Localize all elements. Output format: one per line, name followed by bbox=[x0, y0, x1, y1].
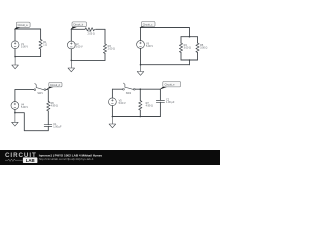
wire B bottom bbox=[71, 59, 105, 61]
svg-text:1.00 µF: 1.00 µF bbox=[166, 101, 175, 104]
node C2 junction bbox=[189, 59, 191, 61]
ground D bbox=[12, 113, 19, 126]
callout box Circuit_a bbox=[14, 22, 30, 30]
wire C parallel bottom bar bbox=[181, 60, 198, 65]
node E2 junction bbox=[140, 116, 142, 118]
wire C parallel left leads bbox=[180, 37, 182, 60]
ground E bbox=[109, 117, 116, 128]
logo resistor squiggle bbox=[5, 159, 23, 161]
wire D mid right bbox=[47, 111, 49, 125]
wire C parallel top bar bbox=[181, 36, 198, 38]
wire A bottom bbox=[15, 56, 41, 58]
wire A top bbox=[15, 28, 41, 30]
voltage source V5 bbox=[109, 98, 117, 106]
footer bar bbox=[0, 150, 220, 165]
node C1 junction bbox=[189, 36, 191, 38]
svg-text:5.00 V: 5.00 V bbox=[146, 45, 153, 48]
wire A left leads bbox=[14, 29, 16, 57]
wire C bottom bbox=[141, 64, 190, 66]
wire C top bbox=[141, 28, 190, 37]
callout box Circuit_e bbox=[159, 81, 180, 89]
svg-text:Circuit_d: Circuit_d bbox=[50, 84, 60, 87]
capacitor C2 bbox=[156, 101, 164, 103]
capacitor C1 bbox=[44, 125, 52, 127]
svg-text:SW1: SW1 bbox=[37, 92, 43, 95]
wire C parallel right leads bbox=[197, 37, 199, 60]
svg-text:3.00 Ω: 3.00 Ω bbox=[200, 47, 207, 50]
svg-text:Circuit_c: Circuit_c bbox=[143, 23, 153, 26]
ground A bbox=[12, 57, 19, 69]
wire B top bbox=[71, 28, 105, 30]
svg-text:1.00 µF: 1.00 µF bbox=[53, 126, 62, 129]
callout box Circuit_d bbox=[46, 82, 62, 89]
callout box Circuit_c bbox=[139, 22, 155, 28]
wire B left leads bbox=[70, 29, 72, 60]
node D1 junction bbox=[14, 112, 16, 114]
wire E R7 branch top bbox=[139, 89, 141, 100]
svg-text:1 Ω: 1 Ω bbox=[43, 44, 47, 47]
svg-text:4.99 Ω: 4.99 Ω bbox=[146, 105, 153, 108]
voltage source V2 bbox=[67, 41, 75, 49]
switch SW2 bbox=[123, 88, 125, 90]
resistor R7 bbox=[139, 101, 142, 110]
svg-text:5.00 V: 5.00 V bbox=[119, 102, 126, 105]
resistor R1 bbox=[39, 40, 42, 49]
node A1 junction bbox=[14, 56, 16, 58]
wire E cap bottom bbox=[159, 102, 161, 116]
logo LAB box bbox=[23, 157, 38, 163]
voltage source V4 bbox=[11, 102, 19, 110]
wire A right bbox=[40, 29, 42, 57]
node C3 junction bbox=[140, 64, 142, 66]
switch SW1 bbox=[34, 89, 36, 91]
svg-text:Circuit_b: Circuit_b bbox=[73, 24, 83, 27]
wire E left leads bbox=[111, 89, 113, 116]
svg-text:2.00 Ω: 2.00 Ω bbox=[88, 33, 95, 36]
node E1 junction bbox=[140, 88, 142, 90]
svg-text:5.00 V: 5.00 V bbox=[76, 46, 83, 49]
ground B bbox=[68, 60, 75, 71]
node E3 junction bbox=[112, 116, 114, 118]
wire E top left bbox=[112, 88, 122, 90]
wire E R7 branch bottom bbox=[139, 110, 141, 116]
wire D left leads bbox=[14, 90, 16, 113]
wire D top left bbox=[15, 89, 34, 91]
svg-text:3.00 Ω: 3.00 Ω bbox=[184, 47, 191, 50]
node B1 junction bbox=[71, 60, 73, 62]
resistor R2 horizontal bbox=[85, 28, 94, 31]
wire B right bbox=[104, 29, 106, 60]
voltage source V3 bbox=[137, 41, 145, 49]
svg-text:http://circuitlab.com/c/fpu2p4: http://circuitlab.com/c/fpu2p43/phys-lab… bbox=[39, 157, 94, 161]
wire D bottom bbox=[15, 113, 48, 131]
svg-text:5.00 V: 5.00 V bbox=[21, 46, 28, 49]
svg-text:5.00 V: 5.00 V bbox=[21, 106, 28, 109]
wire E bottom bbox=[112, 116, 160, 118]
svg-text:Circuit_a: Circuit_a bbox=[18, 24, 28, 27]
svg-text:SW2: SW2 bbox=[126, 92, 132, 95]
resistor R3 vertical bbox=[103, 44, 106, 53]
resistor R4 bbox=[179, 43, 182, 52]
callout box Circuit_b bbox=[70, 22, 86, 30]
svg-text:4.99 Ω: 4.99 Ω bbox=[51, 105, 58, 108]
svg-text:LAB: LAB bbox=[26, 158, 35, 163]
wire D top right bbox=[46, 90, 49, 102]
voltage source V1 bbox=[11, 41, 19, 49]
resistor R5 bbox=[196, 43, 199, 52]
resistor R6 bbox=[47, 102, 50, 111]
svg-text:2.00 Ω: 2.00 Ω bbox=[108, 48, 115, 51]
wire C left leads bbox=[140, 28, 142, 65]
wire E top right bbox=[135, 89, 160, 100]
svg-text:Circuit_e: Circuit_e bbox=[165, 84, 175, 87]
component labels bbox=[21, 30, 208, 129]
ground C bbox=[137, 65, 144, 76]
